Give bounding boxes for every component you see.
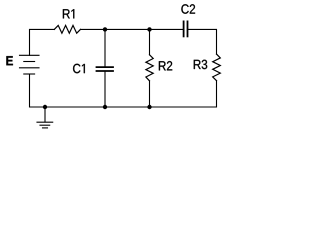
wire R3 to bottom rail — [150, 81, 217, 107]
label R3 — [194, 60, 207, 69]
wire node A to node B — [105, 28, 150, 30]
wire R1 to node A — [81, 28, 106, 30]
wire node B to resistor R2 — [149, 29, 151, 54]
capacitor C2 — [184, 21, 188, 36]
wire node B to capacitor C2 — [150, 28, 183, 30]
node A junction dot — [103, 27, 107, 31]
ground junction dot — [43, 105, 47, 109]
ground — [37, 107, 53, 128]
wire top-left: source E top to resistor R1 — [30, 29, 55, 55]
wire R2 to bottom rail — [149, 81, 151, 107]
wire node A to capacitor C1 — [104, 29, 106, 66]
label R1 — [63, 9, 74, 18]
capacitor C1 — [97, 67, 114, 71]
junction dot C1 bottom — [103, 105, 107, 109]
label C2 — [181, 4, 195, 13]
wire bottom rail R2 node to C1 node — [105, 106, 150, 108]
label E — [6, 56, 13, 65]
wire C1 to bottom rail — [104, 72, 106, 107]
wire C2 to right rail — [188, 29, 216, 54]
resistor R3 — [213, 54, 221, 81]
battery source E — [20, 55, 40, 74]
node B junction dot — [147, 27, 151, 31]
label C1 — [73, 64, 85, 73]
wire bottom rail C1 node to ground node — [45, 106, 105, 108]
junction dot R2 bottom — [147, 105, 151, 109]
wire bottom rail ground node to source E — [30, 74, 46, 107]
resistor R1 — [54, 25, 80, 33]
label R2 — [159, 61, 172, 70]
resistor R2 — [146, 55, 153, 81]
